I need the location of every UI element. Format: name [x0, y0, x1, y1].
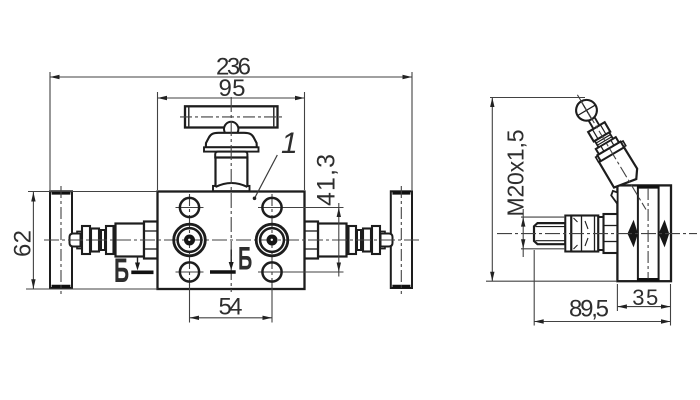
right fitting nose	[381, 234, 393, 247]
extension line 41,3 top (through upper-right bolt)	[258, 207, 344, 209]
centerline left port column	[189, 194, 191, 286]
dimension 236	[50, 72, 412, 190]
svg-text:95: 95	[219, 75, 246, 102]
svg-text:62: 62	[10, 230, 37, 257]
item leader 1	[255, 155, 278, 198]
bonnet bottom arc	[216, 183, 248, 187]
left port inner circle	[178, 228, 202, 252]
left fitting union body	[116, 224, 145, 257]
centerline right port column	[271, 194, 273, 286]
left fitting band2	[91, 229, 99, 252]
centerline side horizontal	[497, 233, 697, 235]
svg-text:Б: Б	[238, 240, 252, 276]
side ring	[598, 217, 603, 250]
right flange F2	[391, 191, 412, 288]
port cone diamond left	[628, 220, 638, 248]
angled ball handle	[572, 96, 600, 124]
angled stem neck	[588, 117, 599, 129]
stem collar	[215, 152, 247, 158]
bolt hole ticks lower-left	[176, 271, 204, 273]
left flange F1	[50, 191, 72, 288]
left fitting disc1	[82, 226, 90, 254]
left port center hole	[184, 235, 195, 246]
angled bonnet	[599, 146, 642, 191]
centerline angled valve axis	[577, 95, 646, 210]
side threaded stud	[534, 223, 565, 244]
side body	[617, 185, 671, 281]
svg-text:35: 35	[632, 285, 658, 310]
angled shoulder ring with tabs	[596, 155, 602, 161]
left compression fitting shaft	[77, 231, 117, 248]
valve handle T-bar	[185, 106, 278, 127]
dimension 89,5	[534, 250, 670, 326]
angled packing nut	[596, 137, 619, 154]
stem bell	[206, 133, 257, 148]
side body bore column left line	[637, 187, 639, 281]
right compression fitting shaft	[345, 231, 385, 248]
bonnet cylinder	[216, 158, 248, 188]
side body bore column right line	[658, 187, 660, 281]
stem ball	[224, 122, 238, 136]
angled thread rings	[595, 132, 613, 147]
stem band	[204, 147, 259, 151]
dimension 35	[617, 284, 670, 311]
bolt hole lower-right	[262, 262, 281, 281]
bolt hole upper-left	[180, 198, 199, 217]
centerline vertical valve axis x=231.2	[230, 97, 232, 292]
dimension 95	[158, 92, 305, 190]
left fitting ring3	[101, 230, 105, 250]
left fitting nose	[70, 234, 81, 247]
side hex	[604, 214, 618, 253]
port cone diamond right	[659, 220, 670, 248]
right port center hole	[267, 235, 278, 246]
svg-text:Б: Б	[114, 251, 129, 289]
dimension 41,3	[338, 203, 340, 277]
svg-text:1: 1	[281, 127, 298, 160]
centerline right flange	[400, 186, 402, 294]
svg-text:54: 54	[219, 294, 243, 321]
bolt hole upper-right	[262, 198, 281, 217]
centerline side vertical bore	[647, 188, 649, 279]
side washer	[565, 216, 571, 252]
bolt hole lower-left	[180, 262, 199, 281]
left port outer circle	[174, 224, 206, 256]
dimension 54	[190, 284, 273, 323]
bolt hole ticks upper-left	[176, 207, 204, 209]
right port inner circle	[260, 228, 284, 252]
bonnet base flange	[213, 186, 250, 191]
right fitting union body	[318, 224, 347, 257]
angled valve assembly	[558, 93, 649, 207]
centerline left flange	[60, 186, 62, 294]
svg-text:41,3: 41,3	[313, 154, 341, 206]
thread callout M20x1,5	[521, 209, 565, 257]
extension line 41,3 bottom (through lower-right bolt)	[258, 271, 344, 273]
right fitting disc4	[349, 226, 357, 254]
svg-text:M20x1,5: M20x1,5	[503, 130, 529, 217]
right fitting hex nut	[305, 222, 319, 259]
right fitting ring3	[357, 230, 361, 250]
right fitting disc1	[372, 226, 380, 254]
angled hex	[588, 122, 610, 141]
bore column bottom thick edge	[637, 278, 660, 281]
section marker B center: arrow	[210, 250, 236, 273]
section marker B left: arrow	[131, 256, 153, 272]
bore column top thick edge	[637, 185, 660, 188]
dimension 62	[26, 192, 158, 290]
left fitting disc4	[106, 226, 114, 254]
manifold body (front view)	[158, 192, 305, 290]
overall height dimension (unlabelled)	[486, 98, 617, 282]
body mounting boss wedge	[611, 191, 617, 204]
centerline horizontal main axis y=240	[44, 239, 419, 241]
right port outer circle	[256, 224, 288, 256]
centerline handle bar	[180, 116, 283, 118]
left fitting hex nut	[144, 222, 158, 259]
svg-text:89,5: 89,5	[569, 296, 609, 323]
side union nut	[571, 216, 598, 252]
right fitting band2	[363, 229, 371, 252]
